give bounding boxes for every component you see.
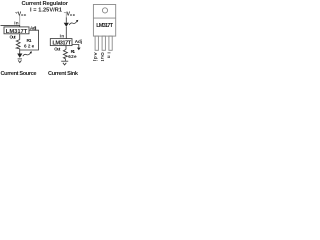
svg-text:Current Sink: Current Sink: [48, 71, 79, 77]
svg-text:Current Source: Current Source: [1, 71, 37, 77]
svg-text:cc: cc: [21, 12, 27, 17]
svg-text:In: In: [14, 20, 19, 25]
svg-text:Current Regulator: Current Regulator: [22, 1, 69, 7]
svg-text:LM317T: LM317T: [96, 23, 113, 29]
svg-text:I = 1.25V/R1: I = 1.25V/R1: [30, 8, 62, 14]
svg-text:R1: R1: [27, 38, 32, 43]
svg-text:Adj: Adj: [75, 39, 82, 44]
svg-text:Out: Out: [100, 52, 105, 61]
svg-text:cc: cc: [70, 12, 76, 17]
svg-text:Out: Out: [54, 46, 61, 51]
svg-text:Out: Out: [10, 34, 17, 39]
svg-text:Adj: Adj: [30, 25, 36, 30]
svg-text:62e: 62e: [24, 44, 35, 49]
svg-text:In: In: [107, 52, 112, 58]
svg-text:Adj: Adj: [93, 52, 98, 61]
svg-text:In: In: [60, 33, 65, 38]
svg-text:62e: 62e: [68, 54, 77, 59]
